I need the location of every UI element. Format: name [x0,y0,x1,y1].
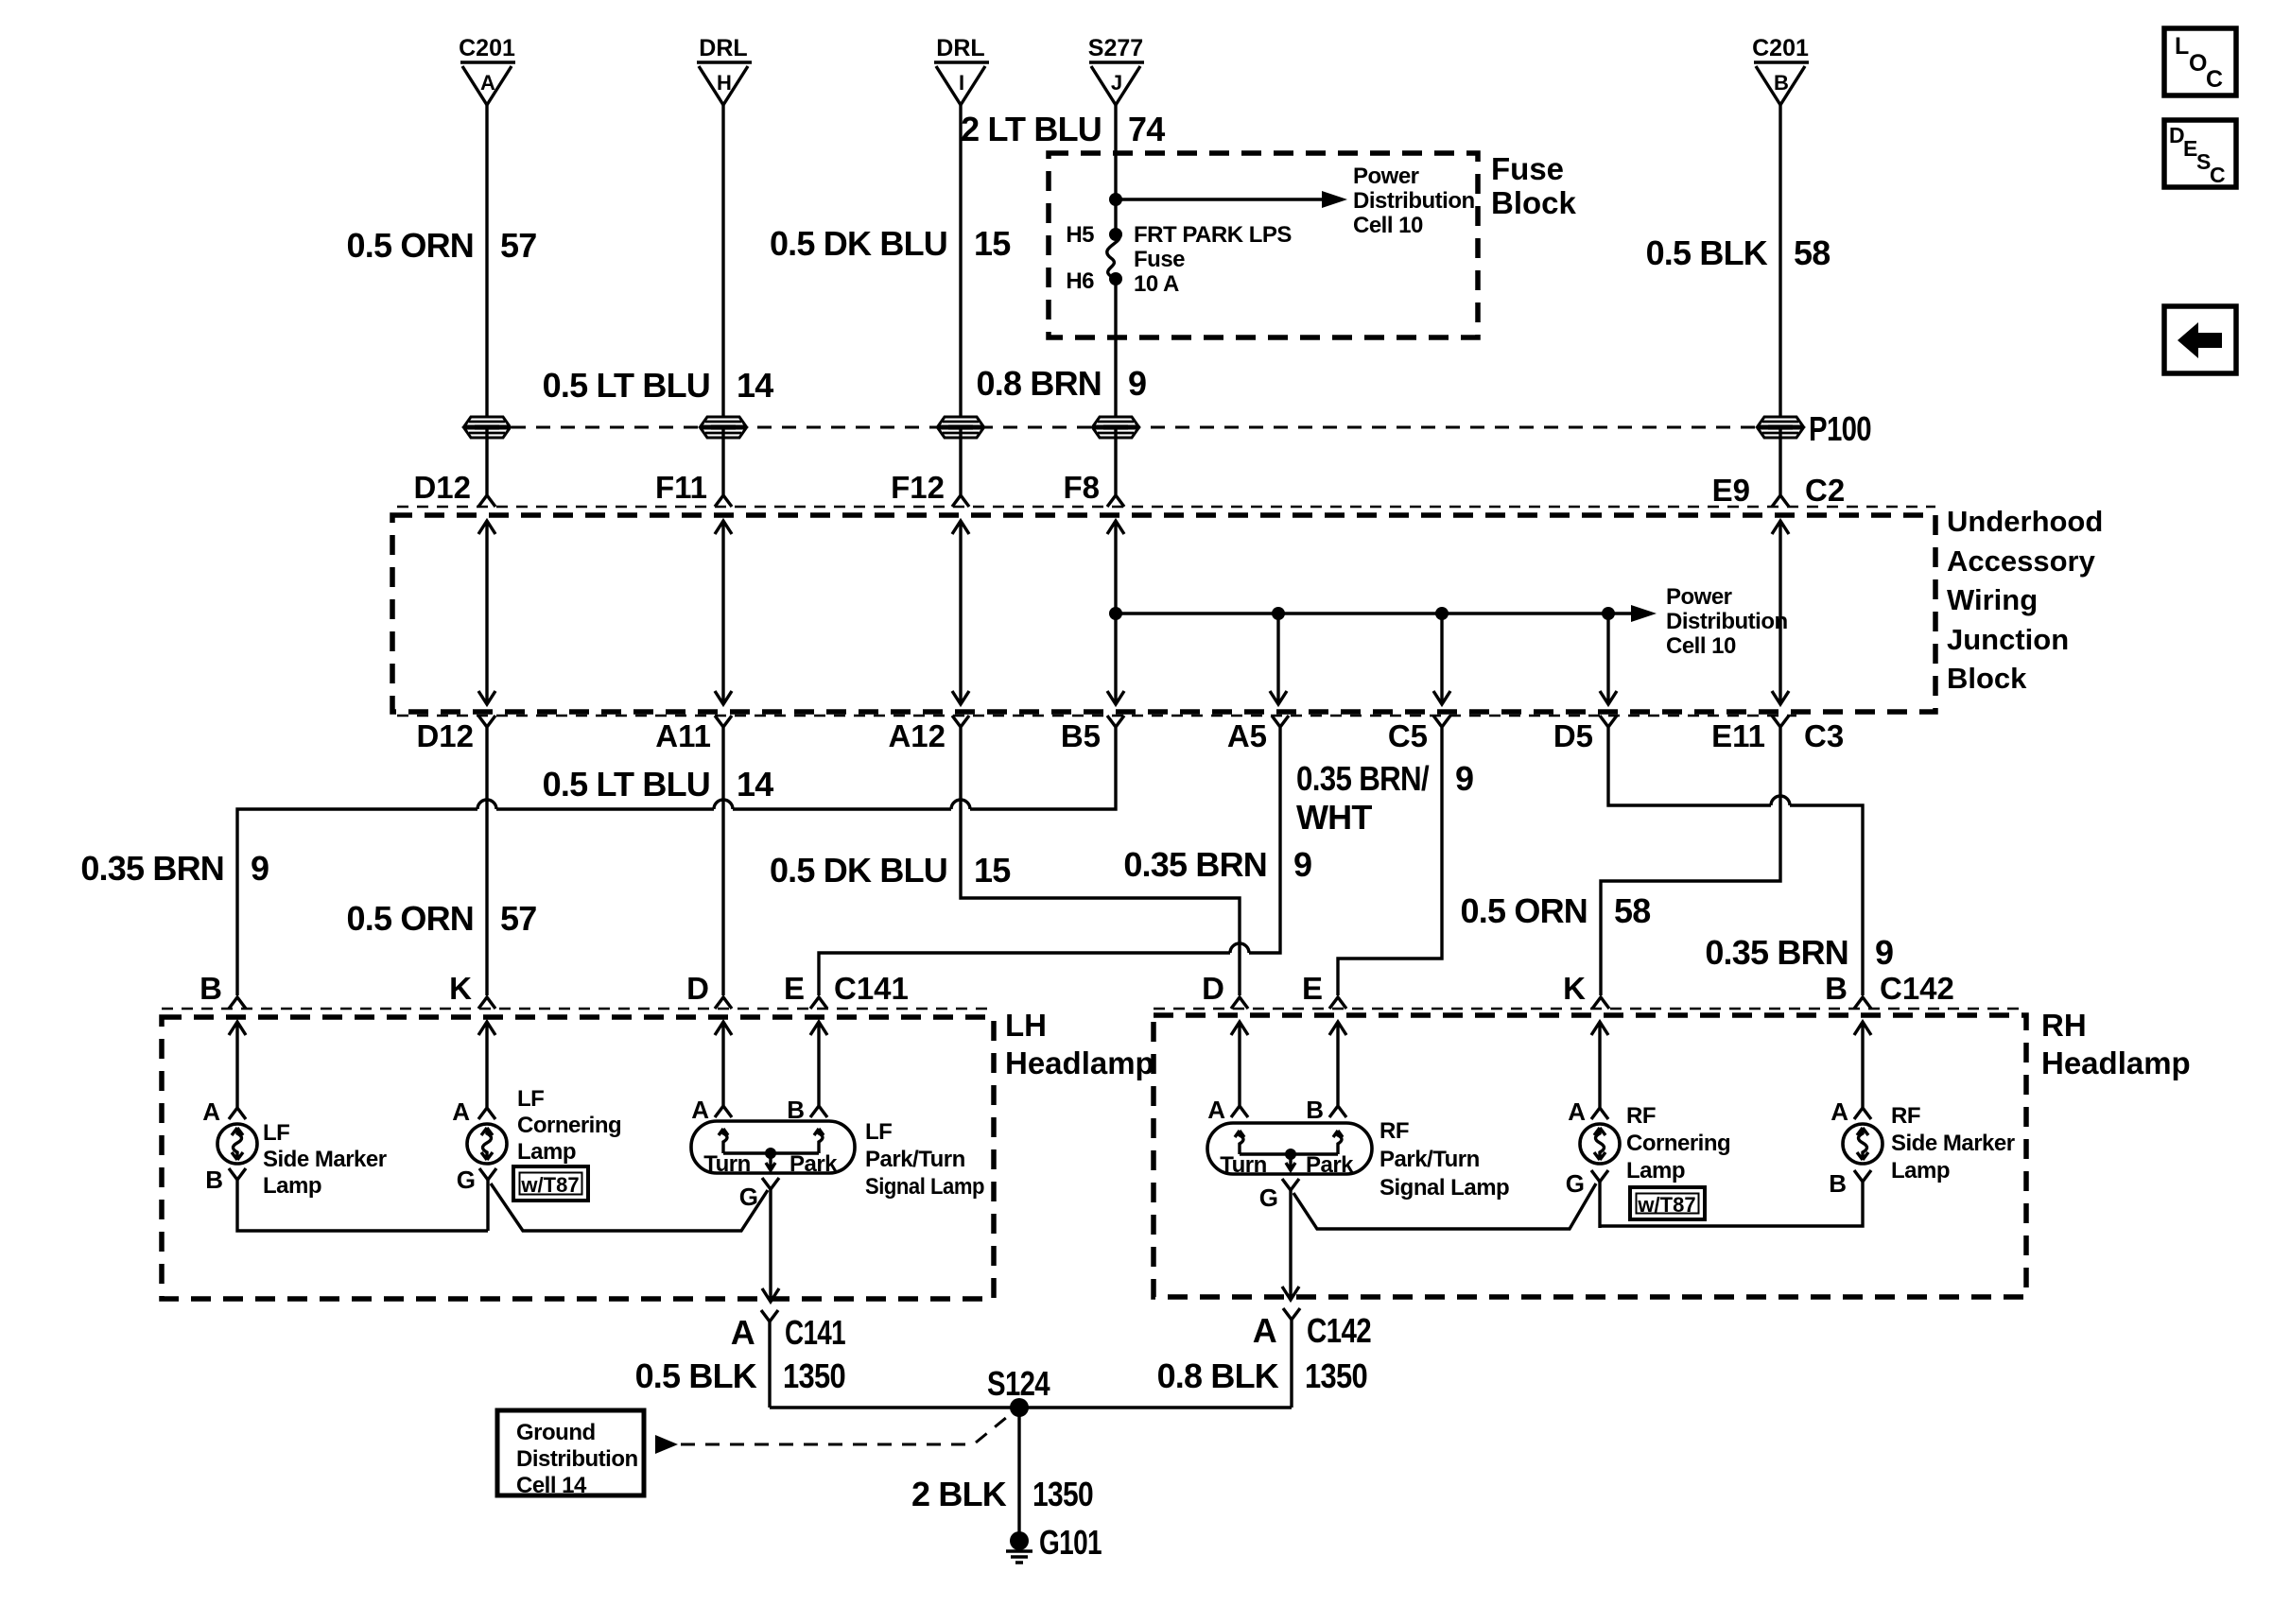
svg-text:0.5 ORN: 0.5 ORN [347,226,474,265]
connector DRL pin H (triangle) [697,35,752,105]
svg-text:Distribution: Distribution [1666,609,1788,634]
wire into RF cornering lamp (pin A) [1591,1022,1608,1119]
label RF Cornering Lamp [1626,1103,1730,1183]
svg-text:G: G [1566,1169,1585,1198]
wire A: P100 to pin D12 [478,427,495,507]
lamp LF side marker [217,1124,257,1164]
label 2 BLK 1350 [911,1475,1093,1513]
wire S124 to ground [1017,1408,1020,1541]
svg-text:E11: E11 [1711,718,1765,753]
svg-text:Wiring: Wiring [1947,583,2038,616]
lamp LF cornering [467,1124,507,1164]
fork G of cornering lamp [479,1168,496,1180]
wire J: fuse to P100 [1114,279,1117,427]
svg-text:Accessory: Accessory [1947,544,2096,578]
fuse terminal H5 [1109,228,1122,241]
ground bus wire right [1019,1406,1292,1408]
connector S277 pin J (triangle) [1088,35,1144,105]
svg-text:0.5 ORN: 0.5 ORN [1461,891,1588,930]
junction block internal wire B5 [1107,521,1124,704]
svg-text:0.35 BRN: 0.35 BRN [80,849,224,888]
label 0.5 ORN 57 (top) [347,226,537,265]
svg-text:F11: F11 [655,470,707,505]
svg-text:Turn: Turn [703,1151,751,1177]
wire B: P100 to pin E9 [1772,427,1789,507]
svg-text:Distribution: Distribution [1353,188,1475,214]
label RH Headlamp [2041,1008,2191,1080]
label RF Park/Turn Signal Lamp [1379,1118,1509,1201]
svg-text:58: 58 [1614,891,1650,930]
svg-text:9: 9 [1875,933,1893,972]
svg-text:C141: C141 [834,971,909,1006]
label LF Cornering Lamp [517,1086,621,1165]
hop over A12 wire [951,800,970,809]
junction block internal wire A12 [952,521,969,704]
svg-text:C142: C142 [1307,1311,1371,1350]
label 0.8 BRN 9 (upper) [977,364,1147,403]
lamp RF cornering [1580,1124,1620,1164]
junction block connector row (top, thin dashed) [397,506,1935,508]
w/T87 box (LH) [513,1166,588,1201]
label 0.5 LT BLU 14 (lower) [543,765,774,803]
pin fork B of C142 [1854,997,1871,1009]
svg-text:Headlamp: Headlamp [1005,1045,1154,1080]
svg-text:57: 57 [500,226,536,265]
label 0.8 BLK 1350 [1157,1356,1367,1395]
svg-text:A: A [731,1313,755,1352]
RH headlamp dashed box [1154,1015,2026,1297]
svg-text:2 BLK: 2 BLK [911,1475,1007,1513]
wire cornering G down to bus [486,1180,489,1231]
svg-text:0.5 LT BLU: 0.5 LT BLU [543,366,710,405]
label 0.5 BLK 58 [1646,233,1831,272]
svg-text:Side Marker: Side Marker [1891,1131,2015,1156]
label 0.5 BLK 1350 [635,1356,845,1395]
svg-text:P100: P100 [1809,409,1871,448]
hop over D12 wire [477,800,496,809]
svg-text:0.5 ORN: 0.5 ORN [347,899,474,938]
ground bus wire left [770,1406,1019,1408]
svg-text:G: G [739,1183,758,1211]
svg-text:1350: 1350 [783,1356,845,1395]
fork G of RF park/turn [1282,1179,1299,1190]
hop over E11 wire [1771,796,1790,805]
svg-text:Cell 10: Cell 10 [1353,213,1423,238]
wire RF park/turn G diagonal bus [1293,1183,1596,1229]
svg-text:G101: G101 [1039,1523,1102,1562]
DESC box [2164,120,2236,187]
svg-text:Signal Lamp: Signal Lamp [1379,1175,1509,1201]
ground symbol G101 [1006,1531,1032,1563]
wire A: C201-A down to P100 [485,105,488,427]
svg-text:Lamp: Lamp [1891,1158,1950,1183]
svg-text:Cornering: Cornering [517,1113,621,1138]
wire into RF side marker (pin A) [1854,1022,1871,1119]
svg-text:1350: 1350 [1305,1356,1367,1395]
svg-text:G: G [457,1166,476,1194]
pin fork K of C142 [1592,997,1609,1009]
svg-text:D5: D5 [1553,718,1593,753]
pin fork E of C141 [810,997,827,1009]
svg-text:E9: E9 [1712,473,1750,508]
pin fork A of C141 (below box) [761,1310,778,1408]
wire B5 to B of C141 (with hops) [237,716,1124,995]
label 0.5 LT BLU 14 (upper) [543,366,774,405]
LOC box [2164,28,2236,95]
label LF Side Marker Lamp [263,1120,387,1199]
lamp RF park/turn signal (stadium) [1207,1123,1372,1174]
label power distribution cell 10 (fuse block) [1353,164,1475,238]
svg-text:RF: RF [1891,1103,1920,1129]
svg-text:Power: Power [1353,164,1419,189]
fuse FRT PARK LPS 10A [1107,234,1119,279]
wire into LF side marker (pin A) [229,1022,246,1119]
svg-text:9: 9 [1293,845,1311,884]
svg-text:B5: B5 [1061,718,1101,753]
svg-text:RF: RF [1379,1118,1409,1144]
svg-text:A: A [691,1096,709,1124]
pin fork A of C142 (below box) [1283,1308,1300,1408]
svg-text:A: A [1207,1096,1225,1124]
internal drop wire to C5 [1433,613,1450,704]
connector row C141 (thin dashed) [162,1008,994,1010]
svg-text:Cell 10: Cell 10 [1666,633,1736,659]
wire D12 to K of C141 [478,716,495,995]
svg-text:F8: F8 [1063,470,1100,505]
svg-text:0.8 BLK: 0.8 BLK [1157,1356,1279,1395]
wire into LF cornering lamp (pin A) [478,1022,495,1119]
svg-text:C: C [2210,163,2226,187]
svg-text:A: A [202,1097,220,1126]
junction block dashed border [392,515,1935,712]
svg-text:B: B [1774,71,1789,95]
wire into LF park/turn B [810,1022,827,1117]
svg-text:K: K [449,971,472,1006]
hop over A12 leg [1230,943,1249,953]
svg-text:C201: C201 [1752,35,1809,61]
svg-text:10 A: 10 A [1134,271,1179,297]
pin fork E of C142 [1329,997,1346,1009]
fork G of LF park/turn [762,1178,779,1189]
wire I: P100 to pin F12 [952,427,969,507]
label 0.35 BRN/WHT 9 [1296,759,1473,837]
fuse block label [1491,151,1577,220]
svg-text:Lamp: Lamp [517,1139,576,1165]
svg-text:K: K [1563,971,1586,1006]
svg-text:Park/Turn: Park/Turn [865,1147,965,1172]
connector row C142 (thin dashed) [1154,1008,2026,1010]
svg-text:C2: C2 [1805,473,1845,508]
wire G down out of RH box [1282,1190,1299,1300]
svg-text:Park: Park [789,1151,838,1177]
svg-text:LF: LF [865,1119,892,1145]
wire: tap to power distribution arrow [1116,198,1324,200]
svg-text:58: 58 [1794,233,1830,272]
svg-text:E: E [784,971,805,1006]
svg-text:Park/Turn: Park/Turn [1379,1147,1480,1172]
svg-text:LF: LF [517,1086,544,1112]
dashed reference arrow to S124 [655,1435,678,1454]
svg-text:B: B [1306,1096,1324,1124]
node: bus tap C5 [1435,607,1449,620]
svg-text:RF: RF [1626,1103,1656,1129]
svg-text:O: O [2189,50,2207,77]
svg-text:15: 15 [974,224,1011,263]
P100 connector symbol on wire H [701,417,746,438]
wire cornering G diagonal to park/turn bus [491,1183,768,1231]
pin fork B of C141 [229,997,246,1009]
wire H: DRL-H down to P100 [721,105,724,427]
svg-text:B: B [1825,971,1848,1006]
svg-text:Lamp: Lamp [1626,1158,1685,1183]
svg-text:G: G [1259,1183,1278,1212]
svg-text:D: D [1202,971,1224,1006]
wire G down out of LH box [762,1189,779,1302]
svg-text:Fuse: Fuse [1134,247,1185,272]
wire A5 to E of C141 (hop over DK BLU) [819,716,1289,995]
wire A11 to D of C141 [715,716,732,995]
svg-text:E: E [1302,971,1323,1006]
connector C201 pin B (triangle) [1752,35,1809,105]
junction block internal wire D12 [478,521,495,704]
label RF Side Marker Lamp [1891,1103,2015,1183]
fuse block dashed box [1049,153,1478,337]
P100 connector symbol on wire B [1758,417,1803,438]
svg-text:Underhood: Underhood [1947,505,2103,538]
svg-text:Turn: Turn [1220,1152,1267,1178]
fork G of RF cornering [1591,1170,1608,1182]
wire I: DRL-I down to P100 [959,105,962,427]
svg-text:DRL: DRL [699,35,747,61]
wire J: S277-J down into fuse block [1114,105,1117,233]
svg-text:D12: D12 [416,718,474,753]
label 0.5 ORN 58 [1461,891,1651,930]
internal drop wire to D5 [1600,613,1617,704]
svg-text:D: D [686,971,709,1006]
svg-text:A: A [1568,1097,1586,1126]
svg-text:S277: S277 [1088,35,1143,61]
svg-text:74: 74 [1128,110,1165,148]
lamp RF side marker [1843,1124,1883,1164]
svg-text:14: 14 [737,765,773,803]
svg-text:A5: A5 [1227,718,1267,753]
back arrow box [2164,306,2236,373]
svg-text:H5: H5 [1066,222,1094,248]
svg-text:Junction: Junction [1947,623,2069,656]
svg-text:Cornering: Cornering [1626,1131,1730,1156]
wire into LF park/turn A [715,1022,732,1117]
svg-text:LH: LH [1005,1008,1047,1043]
svg-text:Distribution: Distribution [516,1446,638,1472]
svg-text:RH: RH [2041,1008,2087,1043]
pin fork D of C141 [715,997,732,1009]
svg-text:H6: H6 [1066,268,1094,294]
svg-text:0.5 LT BLU: 0.5 LT BLU [543,765,710,803]
wire A12 to D of C142 [952,716,1240,995]
P100 inline connector dashed line [487,426,1780,429]
svg-text:Fuse: Fuse [1491,151,1564,186]
label 0.35 BRN 9 (D5) [1705,933,1893,972]
wire E11/C3 to K of C142 [1601,716,1789,995]
svg-text:A: A [1831,1097,1848,1126]
svg-text:L: L [2175,33,2189,60]
svg-text:Park: Park [1306,1152,1354,1178]
svg-text:B: B [200,971,222,1006]
P100 connector symbol on wire I [938,417,983,438]
svg-text:Headlamp: Headlamp [2041,1045,2191,1080]
wire into RF park/turn B [1329,1022,1346,1117]
junction block internal wire E11 [1772,521,1789,704]
svg-text:D12: D12 [413,470,471,505]
wire from LF side marker B down to bottom bus [229,1168,488,1231]
svg-text:0.5 BLK: 0.5 BLK [1646,233,1768,272]
svg-text:57: 57 [500,899,536,938]
svg-text:C141: C141 [785,1313,846,1352]
svg-text:Ground: Ground [516,1420,596,1445]
hop over A11 wire [714,800,733,809]
svg-text:WHT: WHT [1296,798,1372,837]
label 2 LT BLU 74 [961,110,1165,148]
wire RF cornering G down to bus [1598,1182,1601,1228]
connector C201 pin A (triangle) [459,35,515,105]
svg-text:LF: LF [263,1120,289,1146]
svg-text:C3: C3 [1804,718,1844,753]
svg-text:H: H [717,71,732,95]
wire B: C201-B down to P100 [1778,105,1781,427]
svg-text:w/T87: w/T87 [1637,1193,1695,1217]
svg-text:0.5 DK BLU: 0.5 DK BLU [770,851,947,890]
wire RF side marker B down to bus [1600,1170,1871,1226]
svg-text:14: 14 [737,366,773,405]
svg-text:B: B [1829,1169,1847,1198]
svg-text:9: 9 [251,849,269,888]
svg-text:A12: A12 [888,718,946,753]
label 0.5 ORN 57 (lower) [347,899,537,938]
junction block internal wire A11 [715,521,732,704]
w/T87 box (RH) [1630,1187,1705,1219]
svg-text:C5: C5 [1388,718,1428,753]
svg-text:Block: Block [1947,662,2027,695]
node: bus tap D5 [1602,607,1615,620]
P100 connector symbol on wire A [464,417,510,438]
svg-text:w/T87: w/T87 [520,1173,579,1197]
svg-text:9: 9 [1128,364,1146,403]
svg-text:C201: C201 [459,35,515,61]
svg-text:9: 9 [1455,759,1473,798]
pin fork D of C142 [1231,997,1248,1009]
svg-text:0.35 BRN/: 0.35 BRN/ [1296,759,1430,798]
internal bus wire to power distribution [1116,612,1633,614]
wire J: P100 to pin F8 [1107,427,1124,507]
svg-text:0.8 BRN: 0.8 BRN [977,364,1102,403]
lamp LF park/turn signal (stadium) [691,1121,855,1173]
svg-text:A: A [1253,1311,1277,1350]
svg-text:FRT PARK LPS: FRT PARK LPS [1134,222,1292,248]
svg-text:A11: A11 [655,718,711,753]
svg-text:Block: Block [1491,185,1577,220]
label Underhood Accessory Wiring Junction Block [1947,505,2103,695]
svg-text:1350: 1350 [1032,1475,1093,1513]
svg-text:0.5 BLK: 0.5 BLK [635,1356,757,1395]
connector DRL pin I (triangle) [934,35,989,105]
svg-text:0.5 DK BLU: 0.5 DK BLU [770,224,947,263]
wire D5 to B of C142 (hop over E11) [1600,716,1863,995]
wire C5 to E of C142 [1338,716,1450,995]
svg-text:C142: C142 [1880,971,1954,1006]
svg-text:C: C [2206,66,2223,93]
svg-text:J: J [1111,71,1122,95]
svg-text:Power: Power [1666,584,1732,610]
svg-text:DRL: DRL [936,35,984,61]
pin fork K of C141 [478,997,495,1009]
label LF Park/Turn Signal Lamp [865,1119,984,1200]
svg-text:Side Marker: Side Marker [263,1147,387,1172]
label 0.35 BRN 9 (left) [80,849,269,888]
svg-text:A: A [452,1097,470,1126]
svg-text:S124: S124 [987,1364,1050,1403]
svg-text:0.35 BRN: 0.35 BRN [1705,933,1848,972]
node S124 [1010,1398,1029,1417]
wire into RF park/turn A [1231,1022,1248,1117]
svg-text:B: B [205,1166,223,1194]
internal drop wire to A5 [1270,613,1287,704]
node: bus tap A5 [1272,607,1285,620]
svg-text:2 LT BLU: 2 LT BLU [961,110,1102,148]
svg-text:F12: F12 [891,470,945,505]
label power distribution cell 10 (junction block) [1666,584,1788,659]
wire H: P100 to pin F11 [715,427,732,507]
svg-text:0.35 BRN: 0.35 BRN [1123,845,1267,884]
ground distribution cell 14 box [497,1410,644,1498]
svg-text:Cell 14: Cell 14 [516,1473,587,1498]
junction block connector row (bottom, thin dashed) [397,715,1796,717]
label 0.5 DK BLU 15 (top) [770,224,1011,263]
svg-text:I: I [959,71,964,95]
svg-text:A: A [480,71,495,95]
svg-text:15: 15 [974,851,1011,890]
label 0.35 BRN 9 (A5) [1123,845,1311,884]
node: tap junction in fuse block [1109,193,1122,206]
label 0.5 DK BLU 15 (lower) [770,851,1011,890]
node: internal bus tap on B5 wire [1109,607,1122,620]
svg-text:Lamp: Lamp [263,1173,321,1199]
P100 connector symbol on wire J [1093,417,1138,438]
LH headlamp dashed box [162,1017,994,1299]
svg-text:Signal Lamp: Signal Lamp [865,1174,984,1200]
label LH Headlamp [1005,1008,1154,1080]
